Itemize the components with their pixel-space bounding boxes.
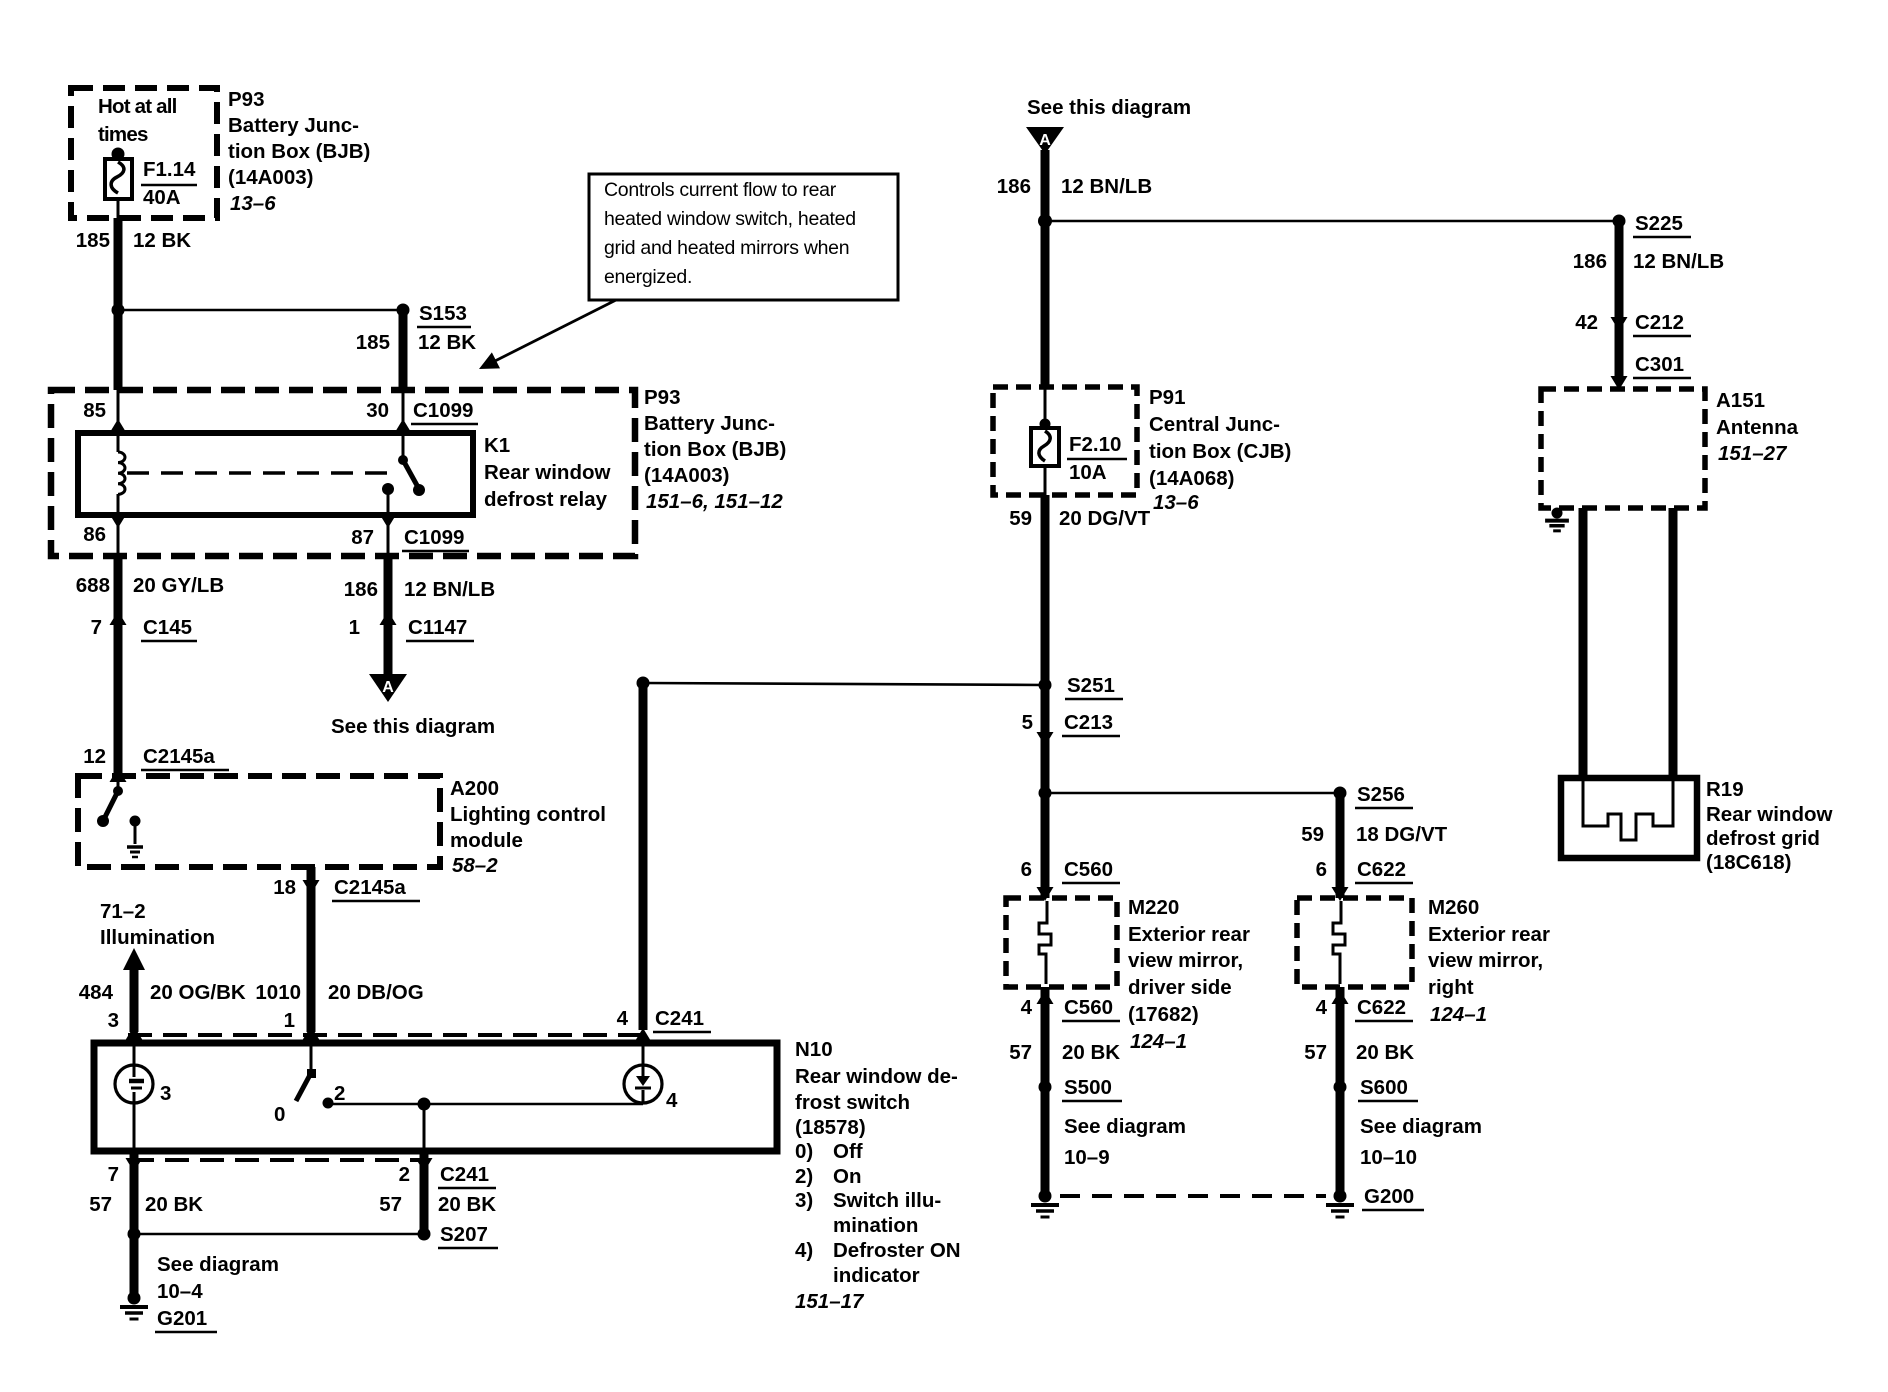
svg-text:12: 12: [83, 745, 106, 768]
svg-text:484: 484: [79, 981, 114, 1004]
svg-text:N10: N10: [795, 1038, 833, 1061]
wire 186 12 BN/LB to antenna: [1615, 221, 1624, 378]
svg-text:(18C618): (18C618): [1706, 851, 1791, 874]
wire 57 20 BK (pin 2) with arrow: [416, 1151, 433, 1234]
label 484 / 20 OG/BK / 1010 / 20 DB/OG: [79, 981, 424, 1004]
svg-text:2: 2: [334, 1082, 345, 1105]
svg-text:S225: S225: [1635, 212, 1683, 235]
svg-text:57: 57: [89, 1193, 112, 1216]
svg-text:C145: C145: [143, 616, 192, 639]
svg-text:P91: P91: [1149, 386, 1185, 409]
indicator lamp Defroster ON (pin 4): [624, 1043, 662, 1104]
N10 internal switch 0/2: [296, 1043, 316, 1101]
svg-text:view mirror,: view mirror,: [1428, 949, 1543, 972]
svg-text:grid and heated mirrors when: grid and heated mirrors when: [604, 237, 849, 259]
svg-text:(14A003): (14A003): [228, 166, 313, 189]
label 6 / C560: [1021, 858, 1120, 883]
connector arrow C622 pin 6: [1332, 887, 1349, 901]
svg-text:S153: S153: [419, 302, 467, 325]
svg-text:Exterior rear: Exterior rear: [1428, 923, 1550, 946]
dashed tie between G200 grounds: [1060, 1194, 1326, 1198]
svg-text:58–2: 58–2: [452, 854, 498, 877]
svg-text:20 DG/VT: 20 DG/VT: [1059, 507, 1151, 530]
svg-text:86: 86: [83, 523, 106, 546]
connector arrow C560 pin 6: [1037, 887, 1054, 901]
svg-text:K1: K1: [484, 434, 510, 457]
label 688 / 20 GY/LB: [76, 574, 224, 597]
connector arrow C560 pin 4: [1037, 990, 1054, 1004]
wire to S225 (thin): [1045, 220, 1619, 223]
svg-text:1: 1: [349, 616, 360, 639]
svg-text:5: 5: [1022, 711, 1033, 734]
svg-text:C622: C622: [1357, 996, 1406, 1019]
svg-text:See diagram: See diagram: [1360, 1115, 1482, 1138]
wire 688 20 GY/LB (86 to A200): [114, 556, 123, 776]
ground G201: [128, 1292, 141, 1305]
relay K1 body: [78, 433, 473, 515]
svg-text:Rear window de-: Rear window de-: [795, 1065, 958, 1088]
svg-text:S207: S207: [440, 1223, 488, 1246]
label A151 Antenna 151-27: [1716, 389, 1799, 465]
svg-text:40A: 40A: [143, 186, 181, 209]
wire S251 tap to left: [643, 683, 1045, 685]
label 59 / 18 DG/VT: [1301, 823, 1447, 846]
svg-text:See this diagram: See this diagram: [1027, 96, 1191, 119]
svg-text:186: 186: [997, 175, 1031, 198]
svg-text:2): 2): [795, 1165, 813, 1188]
svg-text:C241: C241: [655, 1007, 704, 1030]
label 186 / 12 BN/LB: [997, 175, 1152, 198]
label M260 Exterior rear view mirror right: [1428, 896, 1550, 1026]
label 186 / 12 BN/LB: [344, 578, 495, 601]
label K1 Rear window defrost relay: [484, 434, 610, 511]
wire S256 tap to right: [1045, 792, 1340, 795]
svg-text:Rear window: Rear window: [1706, 803, 1832, 826]
svg-text:G200: G200: [1364, 1185, 1414, 1208]
node S153: [397, 304, 410, 317]
box P93 BJB outer (dashed): [51, 390, 635, 556]
connector arrow C213 pin 5: [1037, 732, 1054, 746]
svg-text:times: times: [98, 123, 148, 146]
svg-text:(18578): (18578): [795, 1116, 866, 1139]
off-page connector A (down): [369, 674, 407, 702]
svg-text:See diagram: See diagram: [157, 1253, 279, 1276]
svg-text:4): 4): [795, 1239, 813, 1262]
wire pin 2 down inside N10: [423, 1104, 426, 1151]
svg-text:A200: A200: [450, 777, 499, 800]
svg-text:151–27: 151–27: [1718, 442, 1788, 465]
svg-text:heated window switch, heated: heated window switch, heated: [604, 208, 856, 230]
svg-text:M220: M220: [1128, 896, 1179, 919]
label 5 / C213: [1022, 711, 1120, 736]
svg-text:10–10: 10–10: [1360, 1146, 1417, 1169]
svg-text:3): 3): [795, 1189, 813, 1212]
label 186 / 12 BN/LB (right): [1573, 250, 1724, 273]
node junction on 185 wire: [112, 304, 125, 317]
switch contact 2 and wire to indicator: [323, 1098, 644, 1109]
relay mechanical linkage (dashed): [127, 471, 396, 475]
svg-text:S500: S500: [1064, 1076, 1112, 1099]
svg-text:S256: S256: [1357, 783, 1405, 806]
svg-text:7: 7: [91, 616, 102, 639]
pin arrows into N10 (3, 1, 4): [126, 1026, 652, 1042]
svg-text:57: 57: [1009, 1041, 1032, 1064]
svg-text:151–6, 151–12: 151–6, 151–12: [646, 490, 783, 513]
svg-text:(17682): (17682): [1128, 1003, 1199, 1026]
svg-text:6: 6: [1316, 858, 1327, 881]
svg-text:18: 18: [273, 876, 296, 899]
svg-text:12 BK: 12 BK: [133, 229, 191, 252]
svg-text:F2.10: F2.10: [1069, 433, 1121, 456]
svg-text:C560: C560: [1064, 996, 1113, 1019]
node splice S600: [1334, 1081, 1347, 1094]
box M220 exterior mirror driver side (dashed): [1006, 898, 1117, 987]
label 12 / C2145a: [83, 745, 229, 770]
wire 1010 20 DB/OG (A200 pin 18 to N10): [307, 867, 316, 1032]
svg-text:Rear window: Rear window: [484, 461, 610, 484]
svg-text:S251: S251: [1067, 674, 1115, 697]
svg-text:7: 7: [108, 1163, 119, 1186]
wire antenna to grid left: [1579, 508, 1588, 781]
svg-text:R19: R19: [1706, 778, 1744, 801]
node S256 right end: [1334, 787, 1347, 800]
A200 internal ground contact: [127, 816, 143, 858]
lamp switch illumination (pin 3): [115, 1043, 153, 1151]
svg-text:71–2: 71–2: [100, 900, 146, 923]
svg-text:On: On: [833, 1165, 861, 1188]
svg-text:energized.: energized.: [604, 266, 692, 288]
pin arrow 86 out of relay: [110, 514, 127, 556]
node splice S251: [1039, 679, 1052, 692]
svg-text:87: 87: [351, 526, 374, 549]
svg-text:Battery Junc-: Battery Junc-: [644, 412, 775, 435]
wire 186 12 BN/LB (87 to off-page A): [384, 556, 393, 674]
svg-text:mination: mination: [833, 1214, 918, 1237]
connector arrow C1147 pin 1: [380, 611, 397, 625]
M220 heater element: [1039, 901, 1051, 984]
svg-text:4: 4: [666, 1089, 678, 1112]
svg-text:12 BN/LB: 12 BN/LB: [1061, 175, 1152, 198]
pin arrow 85 into relay: [110, 390, 127, 436]
A200 internal switch: [97, 776, 123, 827]
label 185 / 12 BK: [76, 229, 192, 252]
wire 57 20 BK below M260: [1336, 987, 1345, 1192]
svg-text:P93: P93: [644, 386, 680, 409]
svg-text:20 BK: 20 BK: [1356, 1041, 1414, 1064]
svg-text:59: 59: [1301, 823, 1324, 846]
label F1.14 / 40A: [141, 158, 197, 209]
label 7 / 2 / C241 (bottom pins): [108, 1163, 496, 1188]
svg-text:12 BK: 12 BK: [418, 331, 476, 354]
label 85 / 30 / C1099 (top pins): [83, 399, 478, 424]
svg-text:defrost relay: defrost relay: [484, 488, 608, 511]
connector arrow C622 pin 4: [1332, 990, 1349, 1004]
svg-text:57: 57: [1304, 1041, 1327, 1064]
svg-text:4: 4: [1021, 996, 1033, 1019]
label 18 / C2145a: [273, 876, 420, 901]
svg-text:driver side: driver side: [1128, 976, 1232, 999]
svg-text:10A: 10A: [1069, 461, 1107, 484]
fuse F1.14 40A: [105, 148, 132, 223]
splice S207: [128, 1228, 431, 1241]
svg-text:42: 42: [1575, 311, 1598, 334]
pin arrow 87 out of relay: [380, 514, 397, 528]
svg-text:57: 57: [379, 1193, 402, 1216]
svg-text:C212: C212: [1635, 311, 1684, 334]
svg-text:C2145a: C2145a: [334, 876, 406, 899]
svg-text:P93: P93: [228, 88, 264, 111]
svg-text:A: A: [382, 679, 394, 696]
svg-text:124–1: 124–1: [1130, 1030, 1187, 1053]
svg-text:Lighting control: Lighting control: [450, 803, 606, 826]
svg-text:13–6: 13–6: [230, 192, 276, 215]
svg-text:20 OG/BK: 20 OG/BK: [150, 981, 246, 1004]
svg-text:20 BK: 20 BK: [145, 1193, 203, 1216]
svg-text:18 DG/VT: 18 DG/VT: [1356, 823, 1448, 846]
wire 57 20 BK (pin 7) with arrow: [126, 1151, 143, 1296]
svg-text:(14A068): (14A068): [1149, 467, 1234, 490]
svg-text:Battery Junc-: Battery Junc-: [228, 114, 359, 137]
svg-text:1010: 1010: [255, 981, 301, 1004]
svg-text:indicator: indicator: [833, 1264, 920, 1287]
svg-text:0: 0: [274, 1103, 285, 1126]
svg-text:0): 0): [795, 1140, 813, 1163]
label See diagram 10-10: [1360, 1115, 1482, 1169]
svg-text:20 GY/LB: 20 GY/LB: [133, 574, 224, 597]
svg-text:Off: Off: [833, 1140, 863, 1163]
svg-text:C1099: C1099: [413, 399, 473, 422]
box N10 rear window defrost switch: [94, 1043, 777, 1151]
svg-text:10–9: 10–9: [1064, 1146, 1110, 1169]
svg-text:tion Box (BJB): tion Box (BJB): [644, 438, 786, 461]
label 71-2 Illumination: [100, 900, 215, 949]
svg-text:M260: M260: [1428, 896, 1479, 919]
svg-text:C1147: C1147: [408, 616, 467, 639]
R19 grid element: [1583, 781, 1673, 840]
svg-text:2: 2: [399, 1163, 410, 1186]
label R19 Rear window defrost grid (18C618): [1706, 778, 1832, 874]
svg-text:(14A003): (14A003): [644, 464, 729, 487]
svg-text:Illumination: Illumination: [100, 926, 215, 949]
svg-text:Defroster ON: Defroster ON: [833, 1239, 961, 1262]
node splice S500: [1039, 1081, 1052, 1094]
note box: controls current flow: [589, 174, 898, 300]
node S251 left end: [637, 677, 650, 690]
label P91 Central Junction Box (14A068) 13-6: [1149, 386, 1291, 514]
svg-text:186: 186: [344, 578, 378, 601]
pin arrow 30 into relay and switch blade: [395, 390, 426, 496]
svg-text:C213: C213: [1064, 711, 1113, 734]
fuse F2.10 10A: [1031, 389, 1059, 495]
svg-text:Hot at all: Hot at all: [98, 95, 177, 118]
svg-text:C560: C560: [1064, 858, 1113, 881]
note text: [604, 179, 856, 288]
connector arrow C2145a pin 18: [303, 880, 320, 894]
label See diagram 10-4: [157, 1253, 279, 1303]
svg-text:4: 4: [1316, 996, 1328, 1019]
label P93 Battery Junction Box (14A003) 13-6: [228, 88, 370, 215]
label 59 / 20 DG/VT: [1009, 507, 1150, 530]
node splice S256: [1039, 787, 1052, 800]
connector arrow C145 pin 7: [110, 611, 127, 625]
svg-text:F1.14: F1.14: [143, 158, 196, 181]
note leader arrow to relay box: [475, 300, 616, 377]
box P91 Central Junction Box (dashed): [993, 387, 1137, 495]
connector arrow C301 into antenna: [1611, 376, 1628, 390]
svg-text:59: 59: [1009, 507, 1032, 530]
label M220 Exterior rear view mirror driver side: [1128, 896, 1250, 1053]
svg-text:See this diagram: See this diagram: [331, 715, 495, 738]
svg-text:688: 688: [76, 574, 110, 597]
svg-text:Antenna: Antenna: [1716, 416, 1799, 439]
ground G200 left: [1039, 1190, 1052, 1203]
antenna ground: [1551, 507, 1562, 518]
svg-text:module: module: [450, 829, 523, 852]
svg-text:right: right: [1428, 976, 1474, 999]
svg-text:C622: C622: [1357, 858, 1406, 881]
label 57 / 20 BK (right): [1304, 1041, 1414, 1064]
wire 20 DG/VT trunk down: [1041, 495, 1050, 898]
label 4 / C560: [1021, 996, 1120, 1021]
svg-text:20 BK: 20 BK: [438, 1193, 496, 1216]
svg-text:10–4: 10–4: [157, 1280, 203, 1303]
svg-text:20 BK: 20 BK: [1062, 1041, 1120, 1064]
label 7 / C145: [91, 616, 197, 641]
relay contact 87: [382, 483, 394, 556]
label 57 / 20 BK: [1009, 1041, 1120, 1064]
svg-text:G201: G201: [157, 1307, 207, 1330]
svg-text:6: 6: [1021, 858, 1032, 881]
label 4 / C622: [1316, 996, 1413, 1021]
node junction on pin2 wire: [418, 1098, 431, 1111]
box M260 exterior mirror right (dashed): [1297, 898, 1412, 987]
svg-text:frost switch: frost switch: [795, 1091, 910, 1114]
node S225: [1613, 215, 1626, 228]
svg-text:A151: A151: [1716, 389, 1765, 412]
connector dashed line C241 below N10: [130, 1158, 424, 1162]
connector arrow C2145a pin 12 into A200: [110, 768, 127, 782]
label N10 Rear window defrost switch list: [795, 1038, 961, 1313]
svg-text:20 DB/OG: 20 DB/OG: [328, 981, 424, 1004]
svg-text:3: 3: [108, 1009, 119, 1032]
svg-text:defrost grid: defrost grid: [1706, 827, 1820, 850]
box P93 Battery Junction Box (fuse box, dashed): [71, 88, 217, 218]
svg-text:See diagram: See diagram: [1064, 1115, 1186, 1138]
svg-text:C2145a: C2145a: [143, 745, 215, 768]
svg-text:185: 185: [356, 331, 390, 354]
node junction to S225: [1038, 214, 1052, 228]
connector dashed line C241 above N10: [128, 1033, 648, 1037]
wire splice S153 horizontal: [118, 309, 403, 312]
relay coil K1: [118, 433, 125, 515]
label 42 / C212: [1575, 311, 1691, 336]
svg-text:124–1: 124–1: [1430, 1003, 1487, 1026]
label 86 / 87 / C1099 (bottom pins): [83, 523, 469, 551]
box A200 lighting control module (dashed): [78, 776, 440, 867]
svg-text:186: 186: [1573, 250, 1607, 273]
svg-text:1: 1: [284, 1009, 295, 1032]
svg-text:view mirror,: view mirror,: [1128, 949, 1243, 972]
svg-text:Controls current flow to rear: Controls current flow to rear: [604, 179, 837, 201]
wire 186 12 BN/LB trunk: [1041, 150, 1050, 389]
svg-text:Central Junc-: Central Junc-: [1149, 413, 1280, 436]
svg-text:S600: S600: [1360, 1076, 1408, 1099]
wire 185 12 BK (fuse to relay): [114, 218, 123, 390]
off-page connector A (top): [1026, 127, 1064, 154]
svg-text:3: 3: [160, 1082, 171, 1105]
svg-text:4: 4: [617, 1007, 629, 1030]
label A200 Lighting control module 58-2: [450, 777, 606, 877]
wire 57 20 BK below M220: [1041, 987, 1050, 1192]
svg-text:C1099: C1099: [404, 526, 464, 549]
svg-text:30: 30: [366, 399, 389, 422]
wire antenna to grid right: [1669, 508, 1678, 781]
box R19 rear window defrost grid: [1561, 778, 1697, 858]
wire down from S251 tap to N10 pin 4: [639, 683, 648, 1030]
svg-text:A: A: [1039, 132, 1051, 149]
wire 59 18 DG/VT to M260: [1336, 793, 1345, 898]
M260 heater element: [1333, 901, 1345, 984]
connector arrow C212 pin 42: [1611, 317, 1628, 331]
svg-text:Exterior rear: Exterior rear: [1128, 923, 1250, 946]
svg-text:Switch illu-: Switch illu-: [833, 1189, 941, 1212]
label S153 / 185 / 12 BK: [356, 302, 477, 354]
label See diagram 10-9: [1064, 1115, 1186, 1169]
svg-text:85: 85: [83, 399, 106, 422]
svg-text:tion Box (CJB): tion Box (CJB): [1149, 440, 1291, 463]
label 6 / C622: [1316, 858, 1413, 883]
label 3 / 1 / 4 / C241 (N10 top pins): [108, 1007, 711, 1032]
label P93 BJB (14A003) 151-6, 151-12: [644, 386, 786, 513]
svg-text:13–6: 13–6: [1153, 491, 1199, 514]
svg-text:C241: C241: [440, 1163, 489, 1186]
wire S153 down to relay: [399, 310, 408, 390]
svg-text:151–17: 151–17: [795, 1290, 865, 1313]
svg-text:12 BN/LB: 12 BN/LB: [404, 578, 495, 601]
svg-text:12 BN/LB: 12 BN/LB: [1633, 250, 1724, 273]
box A151 Antenna (dashed): [1541, 389, 1705, 508]
svg-text:tion Box (BJB): tion Box (BJB): [228, 140, 370, 163]
label F2.10 / 10A: [1067, 433, 1127, 484]
wire 484 20 OG/BK with up arrow to illumination: [123, 948, 145, 1032]
label 1 / C1147: [349, 616, 474, 641]
svg-text:185: 185: [76, 229, 110, 252]
svg-text:C301: C301: [1635, 353, 1684, 376]
ground G200 right: [1334, 1190, 1347, 1203]
label 57 / 20 BK pairs: [89, 1193, 496, 1216]
